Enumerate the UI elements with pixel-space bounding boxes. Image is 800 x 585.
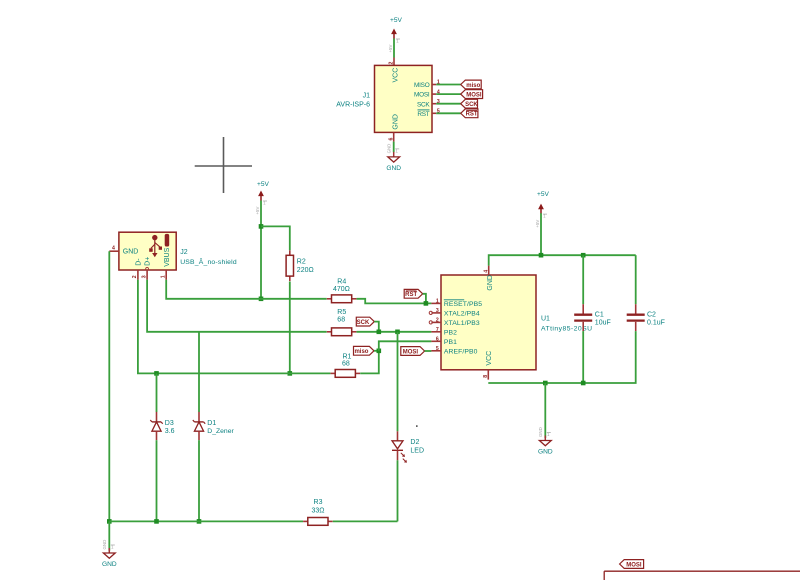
wire RST label to RESET row — [423, 294, 426, 304]
junction C1 / bottom rail — [581, 381, 586, 386]
svg-text:U1: U1 — [541, 316, 550, 323]
svg-text:GND: GND — [386, 165, 401, 172]
svg-text:SCK: SCK — [417, 101, 430, 108]
wire VBUS to R4 — [166, 280, 327, 299]
svg-text:2: 2 — [389, 62, 395, 65]
svg-text:J2: J2 — [180, 249, 188, 256]
svg-text:R5: R5 — [337, 309, 346, 316]
svg-text:MOSI: MOSI — [466, 92, 482, 98]
junction +5V / top rail — [539, 253, 544, 258]
wire D- row to D3 — [156, 373, 158, 412]
wire R4 to U1 RESET pin — [357, 299, 432, 304]
wire R3 to LED column — [333, 520, 398, 522]
svg-text:GND: GND — [123, 249, 139, 256]
svg-text:SCK: SCK — [465, 102, 478, 108]
svg-text:LED: LED — [410, 447, 424, 454]
svg-text:4: 4 — [483, 270, 489, 273]
svg-text:2: 2 — [436, 317, 439, 323]
wire C1 to bottom rail — [582, 331, 584, 383]
resistor R3 — [303, 518, 333, 526]
D3 reference — [165, 420, 174, 427]
wire R2 bottom to D- row — [289, 282, 291, 374]
U1 pin 2 XTAL1/PB3 — [429, 317, 480, 327]
ground symbol under J1 — [386, 144, 401, 172]
R2 reference — [297, 259, 306, 266]
wire MOSI label to AREF pin — [425, 350, 432, 352]
junction R2 / D- row — [288, 371, 293, 376]
wire D+ row to D1 — [198, 332, 200, 412]
J1 pin 4 MOSI with wire — [414, 89, 461, 98]
wire USB GND down left side — [108, 251, 110, 521]
LED D2 — [392, 431, 407, 463]
J1 pin name GND — [393, 114, 400, 130]
C2 value 0.1uF — [647, 320, 665, 327]
R4 reference — [337, 278, 346, 285]
svg-text:8: 8 — [483, 375, 489, 378]
svg-text:R3: R3 — [314, 499, 323, 506]
junction GND drop / bottom rail — [543, 381, 548, 386]
wire D1 to ground rail — [198, 440, 200, 521]
U1 reference designator — [541, 316, 550, 323]
pin 3 D+ of J2 — [141, 267, 148, 279]
U1 pin 7 PB2 — [431, 327, 457, 337]
pin 2 VCC of J1 — [389, 58, 395, 66]
sheet frame corner — [604, 571, 800, 580]
J2 pin name GND — [123, 249, 139, 256]
svg-text:5: 5 — [437, 109, 440, 115]
svg-text:3: 3 — [437, 99, 440, 105]
ground symbol under U1 — [538, 427, 553, 455]
U1 pin 3 XTAL2/PB4 — [429, 308, 480, 318]
R4 value 470R — [333, 286, 350, 293]
U1 value ATtiny85-20SU — [541, 326, 592, 333]
R5 reference — [337, 309, 346, 316]
svg-text:RST: RST — [466, 112, 478, 118]
global label RST (J1) — [461, 109, 478, 118]
svg-text:VCC: VCC — [486, 351, 493, 366]
svg-text:1: 1 — [436, 298, 439, 304]
svg-text:XTAL1/PB3: XTAL1/PB3 — [444, 320, 480, 327]
pin 4 GND of J2 — [109, 245, 119, 251]
svg-text:D+: D+ — [145, 257, 152, 266]
svg-text:+5V: +5V — [390, 17, 403, 24]
connector J1 body — [375, 65, 433, 132]
wire top rail to C1 — [582, 255, 584, 304]
J2 pin name VBUS — [164, 247, 171, 266]
global label miso (U1) — [354, 346, 375, 355]
svg-text:4: 4 — [437, 89, 440, 95]
svg-text:PB2: PB2 — [444, 330, 457, 337]
svg-text:ATtiny85-20SU: ATtiny85-20SU — [541, 326, 592, 333]
D1 reference — [207, 420, 216, 427]
wire miso label to junction — [374, 350, 379, 352]
U1 pin 5 AREF/PB0 — [431, 346, 477, 356]
U1 pin 8 VCC (bottom) — [483, 351, 493, 380]
wire +5V branch to R2 — [261, 226, 290, 250]
power +5V (J1 VCC) — [388, 17, 403, 53]
junction SCK / PB2 row — [377, 330, 382, 335]
D2 value LED — [410, 447, 424, 454]
crosshair marker — [195, 137, 252, 193]
U1 pin 6 PB1 — [431, 336, 457, 346]
svg-text:33Ω: 33Ω — [311, 507, 324, 514]
svg-text:1: 1 — [160, 275, 166, 278]
svg-text:C1: C1 — [595, 312, 604, 319]
wire D3 to ground rail — [156, 440, 158, 521]
svg-text:GND: GND — [538, 427, 543, 437]
D2 reference — [410, 439, 419, 446]
svg-text:7: 7 — [436, 327, 439, 333]
svg-text:R2: R2 — [297, 259, 306, 266]
wire +5V to J1 VCC pin — [393, 39, 395, 58]
svg-text:10uF: 10uF — [595, 320, 611, 327]
wire R1 to miso junction — [360, 351, 379, 374]
svg-text:R1: R1 — [343, 353, 352, 360]
svg-text:MOSI: MOSI — [414, 92, 430, 99]
U1 pin 4 GND (top) — [483, 266, 494, 291]
svg-text:XTAL2/PB4: XTAL2/PB4 — [444, 311, 480, 318]
svg-text:SCK: SCK — [357, 320, 370, 326]
svg-text:RST: RST — [405, 292, 417, 298]
svg-text:68: 68 — [337, 317, 345, 324]
svg-text:USB_Â_no-shield: USB_Â_no-shield — [180, 257, 237, 266]
svg-text:J1: J1 — [363, 93, 371, 100]
wire top rail — [489, 255, 636, 265]
svg-text:GND: GND — [393, 114, 400, 130]
svg-text:5: 5 — [436, 346, 439, 352]
wire SCK label to PB2 row — [374, 322, 379, 332]
global label RST (U1) — [404, 289, 423, 298]
J2 pin name D- — [136, 258, 143, 266]
resistor R5 — [327, 328, 357, 336]
junction +5V / VBUS row — [259, 297, 264, 302]
svg-text:GND: GND — [387, 144, 392, 154]
svg-text:miso: miso — [354, 349, 368, 355]
svg-text:68: 68 — [342, 361, 350, 368]
wire R5 to U1 PB2 pin — [357, 331, 432, 333]
zener diode D1 — [193, 412, 205, 440]
resistor R2 — [286, 250, 293, 281]
junction RST / RESET row — [424, 301, 429, 306]
svg-text:GND: GND — [102, 540, 107, 550]
svg-text:RST: RST — [417, 111, 429, 118]
svg-text:0.1uF: 0.1uF — [647, 320, 665, 327]
J2 USB icon — [149, 234, 169, 257]
svg-text:D2: D2 — [410, 439, 419, 446]
R3 reference — [314, 499, 323, 506]
J1 pin 3 SCK with wire — [417, 99, 461, 108]
J1 pin name VCC — [393, 68, 400, 83]
svg-text:6: 6 — [436, 336, 439, 342]
svg-text:MOSI: MOSI — [403, 349, 419, 355]
wire ground rail — [109, 520, 303, 522]
svg-text:+5V: +5V — [537, 191, 550, 198]
capacitor C2 — [627, 304, 645, 331]
connector J2 body — [119, 232, 176, 270]
global label MOSI (sheet edge) — [620, 560, 644, 569]
junction D3 / D- row — [154, 371, 159, 376]
R1 value 68 — [342, 361, 350, 368]
R2 value 220R — [297, 267, 314, 274]
global label MOSI (U1) — [401, 347, 425, 356]
svg-text:AREF/PB0: AREF/PB0 — [444, 349, 478, 356]
junction LED drop / PB2 row — [395, 330, 400, 335]
zener diode D3 — [150, 412, 162, 440]
svg-text:2: 2 — [132, 275, 138, 278]
J1 value AVR-ISP-6 — [336, 102, 370, 109]
wire LED to R3 row — [397, 460, 399, 521]
D3 value 3.6 — [165, 428, 175, 435]
svg-text:3: 3 — [436, 308, 439, 314]
svg-text:GND: GND — [102, 561, 117, 568]
svg-text:220Ω: 220Ω — [297, 267, 314, 274]
C2 reference — [647, 312, 656, 319]
power +5V (USB rail) — [255, 181, 270, 215]
J1 pin 5 RST with wire — [417, 109, 460, 118]
svg-text:AVR-ISP-6: AVR-ISP-6 — [336, 102, 370, 109]
svg-text:3.6: 3.6 — [165, 428, 175, 435]
svg-text:6: 6 — [388, 138, 394, 141]
svg-text:4: 4 — [112, 245, 115, 251]
R3 value 33R — [311, 507, 324, 514]
capacitor C1 — [574, 304, 592, 331]
junction +5V / R2 branch — [259, 224, 264, 229]
svg-text:D_Zener: D_Zener — [207, 428, 234, 435]
J2 pin name D+ — [145, 257, 152, 266]
power +5V (U1 rail) — [535, 191, 550, 228]
svg-text:R4: R4 — [337, 278, 346, 285]
svg-text:3: 3 — [141, 275, 147, 278]
J1 reference designator — [363, 93, 371, 100]
junction ground rail left — [107, 519, 112, 524]
svg-text:C2: C2 — [647, 312, 656, 319]
wire PB1 to miso junction — [379, 341, 432, 351]
svg-text:+5V: +5V — [535, 220, 540, 228]
svg-text:GND: GND — [487, 275, 494, 291]
svg-text:VBUS: VBUS — [164, 247, 171, 266]
pin 1 VBUS of J2 — [160, 270, 166, 280]
wire top rail to C2 — [635, 255, 637, 304]
wire D+ to R5 — [147, 280, 327, 332]
svg-text:+5V: +5V — [255, 206, 260, 214]
U1 pin 1 RESET/PB5 — [431, 298, 482, 308]
ground symbol bottom left — [102, 540, 117, 568]
C1 reference — [595, 312, 604, 319]
junction C1 / top rail — [581, 253, 586, 258]
junction D3 / ground rail — [154, 519, 159, 524]
D1 value D_Zener — [207, 428, 234, 435]
J1 pin 1 MISO with wire — [414, 80, 461, 89]
wire PB2 row to LED — [397, 332, 399, 432]
svg-text:+5V: +5V — [257, 181, 270, 188]
svg-text:+5V: +5V — [388, 44, 393, 52]
global label MOSI (J1) — [461, 90, 483, 99]
pin 2 D- of J2 — [132, 270, 138, 280]
svg-text:miso: miso — [466, 83, 480, 89]
svg-text:RESET/PB5: RESET/PB5 — [444, 301, 482, 308]
svg-text:D1: D1 — [207, 420, 216, 427]
stray dot — [416, 425, 418, 427]
svg-text:VCC: VCC — [393, 68, 400, 83]
R1 reference — [343, 353, 352, 360]
wire +5V to top rail — [540, 213, 542, 255]
wire D- to R1 — [138, 280, 331, 374]
junction miso / PB1 / R1 — [377, 349, 382, 354]
pin 6 GND of J1 — [388, 133, 394, 142]
svg-text:1: 1 — [437, 80, 440, 86]
wire bottom rail to ground — [544, 383, 546, 438]
global label miso (J1) — [461, 80, 482, 89]
global label SCK (U1) — [356, 317, 374, 326]
wire +5V down to VBUS row — [260, 201, 262, 299]
R5 value 68 — [337, 317, 345, 324]
svg-text:MISO: MISO — [414, 82, 430, 89]
svg-text:MOSI: MOSI — [626, 562, 642, 568]
svg-text:D3: D3 — [165, 420, 174, 427]
svg-text:GND: GND — [538, 449, 553, 456]
wire C2 to bottom rail — [488, 331, 635, 383]
svg-text:470Ω: 470Ω — [333, 286, 350, 293]
resistor R1 — [331, 370, 361, 378]
J2 value USB_A_no-shield — [180, 257, 237, 266]
wire ground stub — [108, 521, 110, 550]
resistor R4 — [327, 295, 357, 303]
C1 value 10uF — [595, 320, 611, 327]
IC U1 body — [441, 275, 536, 370]
junction D1 / ground rail — [197, 519, 202, 524]
svg-text:D-: D- — [136, 258, 143, 266]
svg-text:PB1: PB1 — [444, 339, 457, 346]
wire J1 GND pin to ground — [393, 142, 395, 153]
J2 reference designator — [180, 249, 188, 256]
global label SCK (J1) — [461, 99, 479, 108]
